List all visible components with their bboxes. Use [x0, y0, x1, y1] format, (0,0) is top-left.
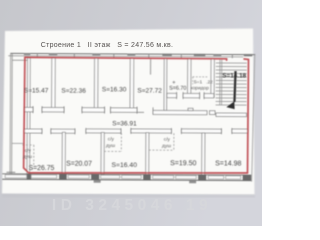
svg-text:S=36.91: S=36.91 — [112, 120, 137, 127]
svg-text:S=14.18: S=14.18 — [222, 72, 246, 79]
svg-text:коридор: коридор — [190, 86, 209, 91]
north wall of bottom rooms with door openings — [24, 128, 248, 134]
red bottom line — [29, 172, 248, 174]
dashed partition of s/u dush in S=19.50 — [149, 133, 174, 150]
corridor north wall segments with door openings — [24, 107, 144, 112]
wall between S=19.50 and S=14.98 — [202, 133, 205, 175]
wall stub left of landing — [210, 111, 216, 115]
bottom wall inner line — [2, 174, 251, 175]
grey scanner background — [0, 0, 262, 226]
top window sill line — [28, 56, 243, 57]
left wall bottom cap — [6, 171, 15, 173]
stair direction arrow — [234, 71, 235, 102]
svg-text:S=16.40: S=16.40 — [111, 162, 137, 169]
top wall piers — [24, 53, 253, 56]
stair treads — [216, 63, 247, 105]
left inner wall of rooms — [27, 58, 30, 174]
room labels — [23, 71, 247, 173]
svg-text:S=26.75: S=26.75 — [28, 165, 54, 172]
svg-text:S=6.70: S=6.70 — [169, 86, 186, 92]
red top line — [25, 57, 227, 60]
svg-text:S=14.98: S=14.98 — [215, 161, 241, 168]
door jamb caps on bottom rooms wall — [42, 127, 232, 135]
white scanned page — [2, 29, 255, 196]
svg-text:S=15.47: S=15.47 — [24, 87, 49, 94]
notch on stair hall wall — [188, 108, 193, 110]
entrance step mark right — [189, 181, 196, 184]
stair flight divider — [220, 59, 222, 105]
svg-text:Строение 1 II этаж S = 247: Строение 1 II этаж S = 247.56 м.кв. — [41, 42, 173, 49]
svg-text:ID 3245046 19: ID 3245046 19 — [52, 197, 212, 214]
wall between koridor and stairwell — [211, 59, 214, 98]
wall between S=26.75 and S=20.07 — [62, 132, 65, 174]
wall between S=6.70 and koridor — [187, 59, 191, 98]
survey cross in S=6.70 — [172, 81, 175, 84]
entrance step mark — [94, 180, 101, 182]
top-left secondary wall line — [8, 55, 28, 57]
red left line — [24, 57, 30, 172]
svg-text:с/у: с/у — [164, 136, 171, 142]
bottom wall outer line — [2, 179, 251, 180]
left strip divider — [12, 59, 27, 61]
dashed partition of s/u dush in S=26.75 — [22, 145, 34, 166]
dashed partition of s/u dush in S=16.40 — [104, 133, 121, 152]
outer top wall line — [10, 53, 255, 54]
svg-text:S=22.36: S=22.36 — [61, 87, 86, 94]
svg-text:S=20.07: S=20.07 — [66, 161, 92, 168]
svg-text:S=16.30: S=16.30 — [102, 86, 127, 93]
svg-text:с/у: с/у — [25, 148, 32, 154]
bottom wall window boxes — [5, 175, 241, 179]
bottom wall piers — [27, 174, 252, 181]
red perimeter outline — [24, 57, 249, 174]
low wall by stair hall — [153, 110, 207, 114]
page bottom edge shadow — [2, 194, 255, 198]
svg-text:с/у: с/у — [108, 136, 115, 142]
svg-text:S=19.50: S=19.50 — [170, 160, 196, 167]
stair landing edge — [216, 113, 247, 117]
wall between S=22.36 and S=16.30 — [94, 58, 98, 108]
wall between S=16.40 and S=19.50 — [146, 133, 149, 175]
left outer wall double line — [10, 53, 12, 174]
wall between S=20.07 and S=16.40 — [101, 132, 104, 174]
south wall of small rooms S=6.70 / koridor — [167, 93, 214, 97]
dashed closet near stairs — [193, 77, 209, 85]
svg-text:S=27.72: S=27.72 — [137, 88, 162, 95]
door jamb caps on small rooms wall — [177, 92, 205, 99]
wall between S=15.47 and S=22.36 — [52, 58, 56, 108]
svg-text:душ: душ — [106, 144, 115, 149]
red right line — [246, 59, 249, 173]
svg-text:S=1 .22: S=1 .22 — [193, 79, 213, 85]
door jamb caps on corridor north wall — [33, 106, 153, 114]
wall between S=27.72 and S=6.70 — [164, 59, 167, 111]
partition stub in S=27.72 — [150, 59, 152, 74]
svg-text:душ: душ — [23, 155, 32, 160]
left strip lower divider — [12, 142, 24, 144]
right outer border — [252, 55, 255, 182]
svg-text:душ: душ — [162, 144, 171, 149]
window mullion ticks — [37, 54, 232, 59]
wall between S=16.30 and S=27.72 — [130, 59, 134, 109]
